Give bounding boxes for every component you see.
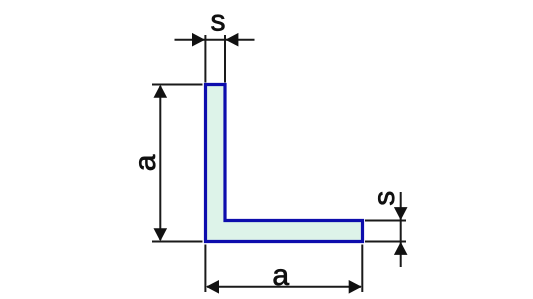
svg-text:a: a [129, 154, 162, 171]
extension line a-left bottom [152, 241, 203, 243]
arrow a-bottom pointing right [349, 280, 362, 294]
extension line a-left top [152, 84, 203, 86]
arrow s-right pointing up [394, 242, 408, 255]
extension line s-top left [204, 35, 206, 83]
arrow s-top pointing left [225, 33, 238, 47]
arrow s-top pointing right [192, 33, 205, 47]
svg-text:s: s [368, 191, 401, 206]
arrow s-right pointing down [394, 207, 408, 220]
extension line s-right top [365, 220, 406, 222]
arrow a-left pointing up [154, 85, 168, 98]
svg-text:a: a [272, 259, 289, 292]
L-profile cross-section [206, 85, 363, 242]
svg-text:s: s [211, 4, 226, 37]
arrow a-bottom pointing left [206, 280, 219, 294]
extension line a-bottom left [204, 245, 206, 293]
extension line s-right bottom [365, 241, 406, 243]
dimension line s-right [400, 192, 402, 267]
extension line a-bottom right [361, 245, 363, 293]
extension line s-top right [224, 35, 226, 83]
arrow a-left pointing down [154, 228, 168, 241]
dimension line a-left [159, 86, 161, 240]
dimension line s-top [175, 39, 255, 41]
dimension line a-bottom [207, 286, 361, 288]
